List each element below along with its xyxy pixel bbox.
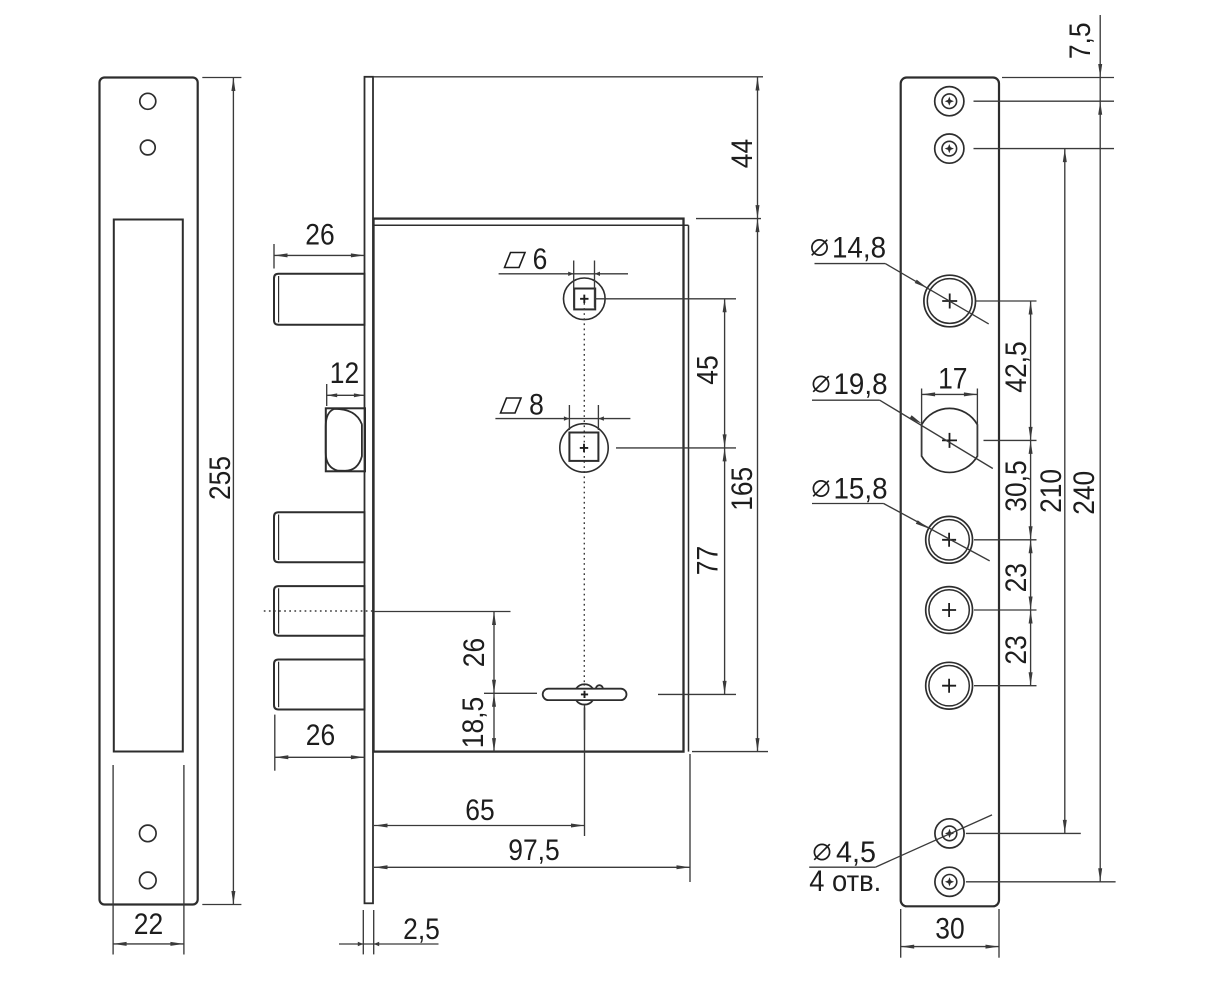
- bolt 3 (deadbolt): [274, 586, 365, 636]
- bolt 1 (top deadbolt): [274, 274, 365, 325]
- svg-text:42,5: 42,5: [1000, 341, 1033, 392]
- right view: hole D19,8 with flats: [922, 408, 978, 472]
- right view: screw hole top 1: [935, 87, 964, 116]
- dim 65: keyhole centerline extension: [584, 705, 586, 836]
- dim 255: bottom extension line: [202, 904, 241, 906]
- dim 26 top: dimension line with arrows: [274, 254, 364, 256]
- dim 2,5: left extension line: [362, 910, 364, 954]
- right view: screw hole top 2: [935, 134, 964, 163]
- dim 22: dimension line with arrows: [113, 943, 184, 945]
- right view: hole 4 outer: [926, 587, 973, 634]
- dim 2,5: right extension line: [373, 910, 375, 954]
- right view: hole 5 inner: [929, 666, 969, 706]
- dim 6: right extension line through square: [594, 261, 596, 308]
- svg-text:77: 77: [692, 546, 725, 575]
- svg-text:22: 22: [134, 908, 163, 941]
- dim 12: extension line: [326, 384, 328, 406]
- bolt 2 (deadbolt): [274, 512, 365, 562]
- right view: hole D14,8 inner: [927, 279, 972, 324]
- leader D19,8: label: [813, 376, 828, 391]
- latch bolt rounded head: [326, 409, 362, 471]
- dim 65: dimension line with arrows: [374, 825, 585, 827]
- square hole 8mm: extension to right dims: [616, 447, 736, 449]
- extension line: hole D14,8: [975, 300, 1036, 302]
- extension line: screw top 1: [974, 100, 1115, 102]
- right view: hole 4 cross: [942, 603, 956, 617]
- square hole 8mm: square: [569, 433, 598, 461]
- extension line: plate top to 7,5 dim: [1002, 77, 1114, 79]
- leader D15,8: label: [813, 481, 828, 496]
- left view: faceplate front outline 22x255: [100, 78, 198, 905]
- right view: hole D15,8 cross: [942, 533, 956, 547]
- dim 12: dimension line with arrows: [327, 394, 365, 396]
- latch housing rectangle: [326, 408, 365, 471]
- dim 17: dimension line with arrows: [922, 393, 978, 395]
- dim 165: dimension line with arrows: [757, 219, 759, 752]
- svg-text:14,8: 14,8: [832, 232, 886, 265]
- svg-text:6: 6: [533, 243, 548, 276]
- square hole 8mm: circle boss: [560, 424, 608, 472]
- dim 42,5/30,5/23/23 chain: dimension line: [1030, 301, 1032, 686]
- dim 2,5: dimension line: [339, 943, 439, 945]
- bolt 3 centerline extension into body: [374, 611, 511, 613]
- bolt 3 end cap line: [278, 588, 280, 633]
- svg-text:30,5: 30,5: [1000, 460, 1033, 511]
- bolt 4 end cap line: [278, 662, 280, 708]
- dim 8: right extension line through square: [597, 405, 599, 430]
- keyhole top notch: [596, 685, 603, 689]
- leader D14,8: diagonal line with arrow: [885, 264, 988, 324]
- dim 26 bottom: extension line: [274, 715, 276, 771]
- square hole 6mm: center cross: [580, 295, 588, 303]
- middle view: cover plate top line: [374, 224, 689, 226]
- dim 45/77 chain: dimension line: [724, 299, 726, 695]
- right view: hole D14,8 outer: [924, 275, 976, 327]
- keyhole centerline below: [584, 708, 586, 731]
- leader D14,8: underline: [815, 263, 886, 265]
- dim 44: top extension line from strip: [373, 76, 763, 78]
- leader D4,5: underline: [809, 866, 875, 868]
- dim 240: dimension line with arrows: [1099, 78, 1101, 882]
- dim 97,5: right extension line: [689, 754, 691, 882]
- dim 6: arrows outside: [568, 272, 574, 276]
- svg-text:18,5: 18,5: [457, 697, 490, 748]
- dim 8: dimension line: [495, 418, 630, 420]
- dim 17: left extension line through hole: [921, 389, 923, 458]
- right view: hole 5 cross: [942, 679, 956, 693]
- svg-text:97,5: 97,5: [508, 834, 559, 867]
- bolt 2 end cap line: [278, 515, 280, 561]
- svg-text:15,8: 15,8: [834, 473, 888, 506]
- dim 255: top extension line: [202, 77, 241, 79]
- dim 18,5: extension line left of keyhole: [484, 692, 537, 694]
- extension line: hole D19,8: [984, 439, 1037, 441]
- svg-text:8: 8: [529, 389, 544, 422]
- extension line: screw top 2: [974, 148, 1115, 150]
- leader D15,8: diagonal line with arrow: [884, 504, 990, 561]
- dim 8: square symbol: [501, 398, 522, 413]
- dim 30: dimension line with arrows: [901, 946, 999, 948]
- svg-text:26: 26: [458, 638, 491, 667]
- svg-text:23: 23: [1000, 635, 1033, 664]
- keyhole extension to right dims: [658, 693, 736, 695]
- left view: bottom screw hole 1: [140, 825, 157, 842]
- extension line: screw bottom 2: [966, 881, 1116, 883]
- bolt 4 (deadbolt): [274, 660, 365, 710]
- left view: bottom screw hole 2: [140, 872, 157, 889]
- svg-text:44: 44: [726, 139, 759, 168]
- svg-text:17: 17: [938, 363, 967, 396]
- svg-text:26: 26: [306, 719, 335, 752]
- dim 44/165: extension line at body top: [696, 218, 761, 220]
- square hole 6mm: square: [574, 289, 595, 310]
- dim 30: right extension line: [998, 909, 1000, 958]
- svg-text:45: 45: [692, 355, 725, 384]
- dim 97,5: dimension line with arrows: [374, 866, 690, 868]
- bolt 1 end cap line: [278, 276, 280, 322]
- vertical dotted centerline through square holes: [583, 303, 585, 686]
- extension line: hole D15,8: [974, 539, 1037, 541]
- dim 2,5: arrows outside: [358, 942, 364, 946]
- left view: top screw hole 2: [140, 140, 155, 155]
- svg-text:165: 165: [726, 467, 759, 511]
- dim 44/165: extension line at body bottom: [692, 751, 768, 753]
- left view: recess rectangle: [114, 220, 183, 752]
- dim 22: right extension line: [183, 765, 185, 955]
- svg-text:2,5: 2,5: [403, 913, 440, 946]
- dim 17: right extension line through hole: [976, 389, 978, 458]
- bolt 3 dotted centerline: [264, 610, 374, 612]
- middle view: lock body outline: [374, 219, 684, 752]
- square hole 6mm: circle boss: [564, 278, 606, 320]
- leader D19,8: diagonal line with arrow: [880, 400, 993, 468]
- svg-text:65: 65: [465, 794, 494, 827]
- right view: screw hole bottom 2: [935, 867, 964, 896]
- keyhole center circle bulge: [576, 684, 593, 704]
- dim 8: left extension line through square: [568, 405, 570, 430]
- extension line: screw bottom 1: [966, 832, 1081, 834]
- dim 26/18.5 chain: extension from bolt3 done; dimension line: [493, 612, 495, 752]
- dim 26 top: extension line: [273, 244, 275, 269]
- right view: screw hole bottom 1: [935, 819, 964, 848]
- svg-text:12: 12: [330, 357, 359, 390]
- square hole 6mm: extension to right dims: [595, 298, 736, 300]
- leader D4,5: label line 1: [814, 844, 829, 859]
- svg-text:23: 23: [1000, 563, 1033, 592]
- right view: hole 4 inner: [929, 590, 969, 630]
- leader D14,8: label: [812, 240, 827, 255]
- dim 44: dimension line with arrows: [757, 77, 759, 219]
- leader D19,8: underline: [812, 399, 880, 401]
- keyhole slot capsule: [543, 689, 627, 700]
- right view: hole D19,8 cross: [942, 433, 957, 448]
- keyhole center cross: [581, 691, 588, 698]
- svg-text:30: 30: [935, 913, 964, 946]
- dim 22: left extension line: [112, 765, 114, 955]
- extension line: hole 4: [974, 609, 1037, 611]
- middle view: faceplate strip edge-on: [365, 77, 374, 904]
- svg-text:255: 255: [204, 456, 237, 500]
- square hole 8mm: center cross: [580, 444, 588, 452]
- dim 6: left extension line through square: [573, 261, 575, 308]
- dim 7,5: dimension line above with outside arrow: [1099, 15, 1101, 78]
- right view: hole 5 outer: [926, 662, 973, 709]
- middle view: cover plate right line: [688, 225, 690, 751]
- dim 30: left extension line: [900, 909, 902, 958]
- leader D15,8: underline: [812, 503, 884, 505]
- svg-text:210: 210: [1035, 469, 1068, 513]
- dim 26 bottom: dimension line with arrows: [275, 756, 365, 758]
- leader D4,5: diagonal line with arrow: [875, 815, 992, 867]
- svg-text:4 отв.: 4 отв.: [809, 865, 881, 898]
- extension line: hole 5: [974, 685, 1037, 687]
- right view: outer plate outline 30x255: [901, 78, 999, 907]
- dim 6: square symbol: [505, 253, 526, 268]
- right view: hole D15,8 inner: [929, 520, 969, 560]
- svg-text:7,5: 7,5: [1064, 22, 1097, 59]
- dim 255: dimension line with arrows: [232, 78, 234, 905]
- svg-text:19,8: 19,8: [834, 368, 888, 401]
- right view: hole D15,8 outer: [926, 516, 973, 563]
- dim 8: arrows outside: [564, 416, 570, 420]
- dim 6: dimension line: [499, 273, 628, 275]
- right view: hole D14,8 cross: [942, 294, 957, 309]
- svg-text:240: 240: [1068, 471, 1101, 515]
- left view: top screw hole 1: [140, 93, 156, 109]
- dim 210: dimension line with arrows: [1064, 149, 1066, 834]
- svg-text:26: 26: [305, 219, 334, 252]
